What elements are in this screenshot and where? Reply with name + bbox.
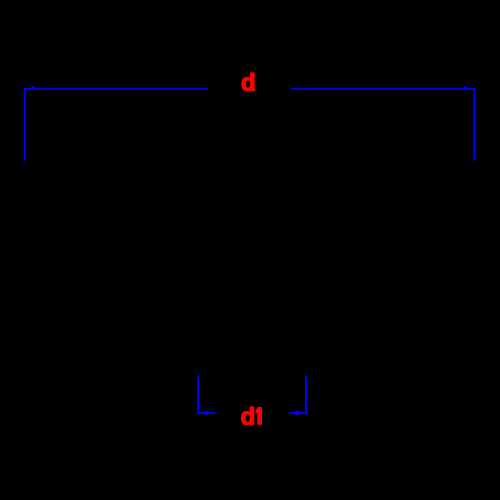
svg-text:d: d [241, 404, 256, 431]
arrowhead left (dimension d1) [199, 410, 209, 415]
dimension line d1 right segment [289, 412, 306, 414]
arrowhead right (dimension d) [464, 86, 474, 90]
dimension line d left segment [25, 88, 208, 90]
extension line left (dimension d) [24, 88, 26, 160]
extension line right (dimension d) [473, 88, 475, 160]
label d1 digit 1 [255, 407, 262, 425]
arrowhead right (dimension d1) [296, 410, 306, 415]
extension line right (dimension d1) [305, 374, 307, 377]
svg-text:d: d [241, 70, 256, 97]
dimension line d right segment [291, 88, 474, 90]
extension line left (dimension d1) [197, 374, 199, 377]
arrowhead left (dimension d) [25, 86, 35, 90]
dimension line d1 left segment [198, 412, 215, 414]
